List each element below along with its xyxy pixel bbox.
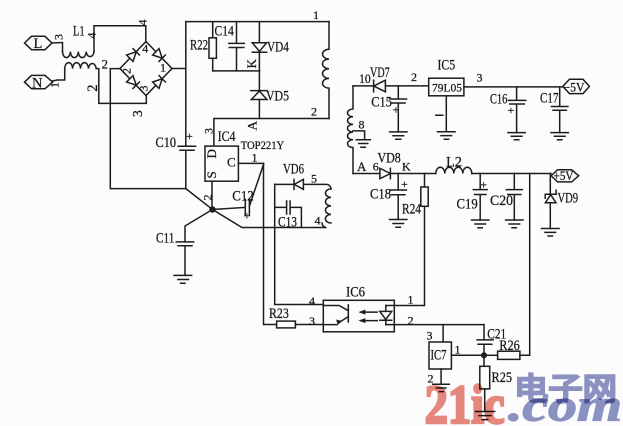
svg-text:+: + — [186, 129, 193, 143]
ground below IC5 — [438, 132, 456, 140]
bridge diode D-LB — [127, 76, 140, 89]
bridge rectifier diamond — [120, 42, 172, 96]
wire IC6 pin2 net — [386, 324, 484, 326]
svg-text:N: N — [32, 75, 43, 91]
bridge diode D-BR — [153, 76, 166, 89]
wire top rail — [186, 21, 329, 23]
connector L — [25, 36, 52, 49]
wire L1 pin2 to bridge bottom — [96, 69, 146, 104]
wire N to L1 — [53, 69, 65, 81]
svg-text:4: 4 — [142, 42, 148, 56]
svg-text:2: 2 — [411, 70, 417, 84]
ground at center tap — [356, 140, 370, 148]
svg-text:IC6: IC6 — [346, 285, 365, 301]
ground below IC7 — [433, 384, 450, 391]
op-amp IC4 TOP221Y box — [205, 146, 238, 181]
svg-text:1: 1 — [48, 82, 62, 88]
svg-text:2: 2 — [201, 195, 215, 201]
svg-text:1: 1 — [455, 343, 461, 357]
wire IC7 pin2 down — [440, 369, 442, 384]
svg-text:C16: C16 — [490, 92, 507, 108]
capacitor C15 — [390, 86, 407, 132]
resistor R23 — [277, 321, 324, 328]
svg-text:2: 2 — [120, 68, 134, 74]
svg-text:C11: C11 — [156, 231, 174, 247]
wire +5V rail — [390, 173, 551, 175]
svg-text:4: 4 — [136, 20, 150, 26]
svg-text:TOP221Y: TOP221Y — [241, 138, 285, 152]
optocoupler IC6 box — [323, 300, 394, 332]
diode VD8 — [380, 168, 391, 178]
wire K node horizontal — [213, 70, 260, 72]
wire L1 pin4 to bridge top — [94, 26, 146, 52]
svg-text:L2: L2 — [446, 155, 462, 171]
ground below C19 — [472, 220, 489, 228]
svg-text:R23: R23 — [269, 306, 289, 322]
resistor R25 — [480, 355, 490, 411]
svg-text:D: D — [204, 149, 219, 158]
wire bridge right to DC-plus — [172, 22, 186, 147]
svg-text:IC4: IC4 — [218, 129, 236, 145]
wire L to L1 — [52, 43, 63, 52]
resistor R24 — [421, 174, 428, 207]
wire bridge left to DC-minus bus — [110, 69, 212, 210]
ground below C15 — [390, 132, 407, 139]
svg-text:R24: R24 — [402, 202, 422, 218]
transformer bias winding — [325, 189, 331, 223]
IC6 LED — [380, 306, 392, 325]
svg-text:.com: .com — [508, 380, 622, 426]
svg-text:A: A — [245, 121, 260, 131]
svg-text:VD5: VD5 — [266, 89, 289, 105]
svg-text:2: 2 — [102, 57, 109, 72]
diode VD4 — [252, 22, 266, 71]
wire IC5 ground pin — [436, 96, 447, 132]
wire bias top / VD6 anode net — [275, 184, 331, 189]
svg-text:3: 3 — [477, 71, 483, 85]
svg-text:+: + — [244, 209, 251, 223]
svg-text:VD6: VD6 — [283, 162, 304, 178]
svg-text:C14: C14 — [215, 24, 235, 40]
wire IC4 source pin — [211, 181, 213, 209]
svg-text:C20: C20 — [490, 193, 513, 209]
svg-text:3: 3 — [309, 314, 315, 328]
wire drain node — [214, 119, 329, 147]
wire IC6 pin1 to R24 — [386, 206, 425, 305]
svg-text:C19: C19 — [457, 197, 478, 213]
shunt regulator IC7 box — [429, 342, 451, 369]
svg-text:R22: R22 — [190, 38, 208, 54]
svg-text:C: C — [227, 155, 236, 170]
capacitor C17 — [552, 87, 568, 133]
wire source to bias winding bottom — [213, 210, 327, 228]
svg-text:C17: C17 — [540, 91, 559, 107]
regulator IC5 79L05 box — [429, 78, 464, 96]
svg-text:3: 3 — [130, 110, 145, 117]
svg-text:3: 3 — [137, 86, 151, 92]
wire control to R23 vertical — [264, 163, 277, 324]
transformer primary winding — [323, 22, 330, 119]
svg-text:C13: C13 — [278, 215, 297, 231]
ground below C20 — [506, 220, 523, 228]
wire IC5 output rail — [464, 86, 563, 88]
capacitor C21 — [477, 325, 493, 356]
svg-text:3: 3 — [52, 34, 66, 40]
svg-text:−5V: −5V — [564, 80, 585, 94]
capacitor C20 — [506, 174, 522, 221]
svg-text:2: 2 — [408, 313, 414, 327]
svg-text:IC7: IC7 — [431, 348, 447, 364]
svg-text:2: 2 — [311, 105, 317, 119]
diode VD5 — [251, 71, 267, 119]
capacitor C14 — [229, 22, 245, 71]
IC6 light arrows — [358, 310, 377, 324]
svg-text:C15: C15 — [371, 95, 392, 111]
wire secondary bottom pin6 — [353, 173, 380, 175]
svg-text:R26: R26 — [499, 338, 520, 354]
ground below C18 — [390, 220, 407, 228]
svg-text:VD9: VD9 — [558, 191, 579, 207]
inductor L2 — [436, 167, 472, 173]
svg-text:L1: L1 — [73, 24, 85, 40]
capacitor C16 — [508, 87, 526, 133]
svg-text:+5V: +5V — [554, 169, 574, 183]
svg-text:VD7: VD7 — [370, 65, 390, 81]
svg-text:4: 4 — [309, 294, 315, 308]
bridge diode D-TR — [153, 49, 166, 62]
connector -5V — [563, 79, 590, 93]
svg-text:VD4: VD4 — [267, 40, 289, 56]
wire source to C11 — [185, 210, 213, 242]
diode VD6 — [294, 179, 303, 189]
capacitor C18 — [390, 174, 406, 220]
diode VD7 — [374, 80, 429, 92]
svg-text:21ic: 21ic — [425, 374, 505, 426]
capacitor C12 — [213, 199, 249, 215]
resistor R26 — [484, 174, 530, 360]
zener diode VD9 — [545, 174, 556, 229]
svg-text:3: 3 — [427, 329, 433, 343]
svg-text:L: L — [34, 36, 43, 52]
wire IC7 pin1 to junction — [451, 354, 484, 356]
ground below R25 — [476, 412, 495, 420]
node feedback junction — [481, 352, 487, 358]
svg-text:+: + — [401, 177, 408, 191]
wire IC4 control pin — [238, 162, 263, 164]
svg-text:+: + — [480, 178, 487, 192]
svg-text:+: + — [393, 103, 400, 117]
svg-text:8: 8 — [359, 118, 365, 132]
resistor R22 — [209, 22, 216, 71]
svg-text:1: 1 — [408, 293, 414, 307]
svg-text:79L05: 79L05 — [432, 81, 462, 95]
inductor L1 top winding — [63, 52, 95, 58]
svg-text:IC5: IC5 — [438, 58, 456, 74]
svg-text:C10: C10 — [156, 135, 177, 151]
svg-text:1: 1 — [252, 151, 258, 165]
wire pin10 to VD7 — [353, 85, 373, 87]
node source junction — [209, 206, 215, 212]
inductor L1 bottom winding — [65, 63, 97, 69]
connector N — [25, 75, 53, 88]
ground below C11 — [174, 275, 192, 283]
svg-text:2: 2 — [85, 85, 101, 92]
svg-text:4: 4 — [315, 214, 321, 228]
svg-text:VD8: VD8 — [378, 151, 401, 167]
svg-text:3: 3 — [202, 128, 216, 134]
capacitor C11 — [176, 242, 193, 276]
connector +5V — [551, 170, 579, 182]
svg-text:A: A — [357, 159, 367, 174]
svg-text:+: + — [508, 103, 515, 117]
svg-text:1: 1 — [313, 8, 319, 22]
ground below C16 — [508, 133, 525, 140]
wire bias node to IC6 pin4 — [275, 184, 324, 304]
ground below VD9 — [542, 229, 560, 237]
wire control to C12 diagonal — [249, 165, 263, 207]
svg-text:K: K — [244, 59, 259, 69]
svg-text:10: 10 — [359, 71, 371, 86]
capacitor C10 — [178, 146, 195, 188]
capacitor C19 — [473, 174, 487, 221]
IC6 phototransistor — [323, 305, 348, 325]
bridge diode D-LT — [127, 49, 140, 62]
svg-text:C18: C18 — [370, 187, 391, 203]
svg-text:K: K — [402, 160, 411, 174]
wire secondary center tap pin8 — [353, 131, 365, 140]
svg-text:4: 4 — [85, 33, 99, 39]
svg-text:1: 1 — [160, 61, 166, 75]
svg-text:5: 5 — [311, 172, 317, 186]
transformer secondary winding — [348, 86, 353, 174]
capacitor C13 — [275, 201, 302, 228]
ground below C17 — [551, 133, 568, 140]
svg-text:S: S — [204, 171, 219, 178]
svg-text:C12: C12 — [232, 189, 253, 205]
wire to IC7 ref pin3 — [442, 325, 444, 342]
